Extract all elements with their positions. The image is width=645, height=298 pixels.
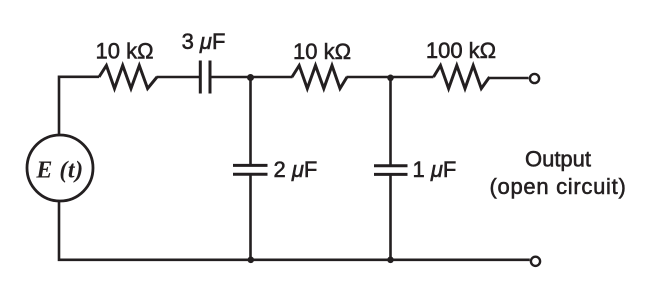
junction dot node A (bottom rail): [248, 257, 255, 264]
node B junction dot (top): [387, 75, 394, 82]
wire: node B to R3: [391, 76, 434, 79]
wire: R2 to node B: [347, 76, 391, 79]
svg-text:1 μF: 1 μF: [413, 157, 457, 182]
svg-text:100 kΩ: 100 kΩ: [426, 38, 496, 63]
svg-text:10 kΩ: 10 kΩ: [293, 39, 351, 64]
svg-text:E (t): E (t): [35, 158, 83, 184]
capacitor C1 3 uF (series): [200, 61, 210, 94]
svg-text:2 μF: 2 μF: [274, 157, 318, 182]
wire: node A to R2: [251, 76, 293, 79]
resistor R1 10 kOhm: [99, 66, 157, 89]
junction dot node B (bottom rail): [387, 257, 394, 264]
resistor R3 100 kOhm: [434, 66, 490, 89]
wire: node A down to C2: [249, 77, 252, 165]
wire: R1 to capacitor C1: [157, 76, 200, 79]
wire: top-left from source to R1: [59, 77, 99, 136]
node A junction dot (top): [247, 74, 254, 81]
output terminal (top, open circle): [530, 74, 539, 83]
wire: C3 down to bottom rail: [389, 174, 392, 260]
svg-text:(open circuit): (open circuit): [490, 174, 627, 199]
capacitor C3 1 uF (shunt): [374, 166, 408, 175]
wire: C1 to node A: [212, 76, 251, 79]
svg-text:10 kΩ: 10 kΩ: [95, 39, 153, 64]
wire: bottom rail: [59, 201, 530, 260]
resistor R2 10 kOhm: [292, 66, 347, 89]
wire: node B down to C3: [389, 77, 392, 166]
wire: R3 to top output terminal: [489, 77, 529, 80]
voltage source E(t): [27, 135, 93, 201]
svg-text:3 μF: 3 μF: [182, 29, 226, 54]
svg-text:Output: Output: [525, 146, 591, 171]
output terminal (bottom, open circle): [531, 257, 540, 266]
wire: C2 down to bottom rail: [249, 174, 252, 260]
capacitor C2 2 uF (shunt): [233, 165, 268, 174]
